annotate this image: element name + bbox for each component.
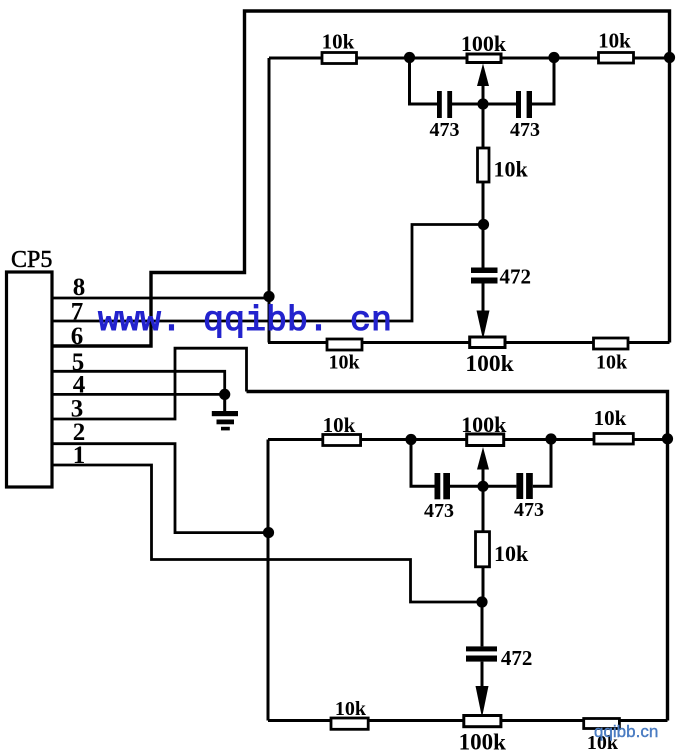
- capacitor 473 left (lower block): [435, 473, 441, 499]
- svg-text:100k: 100k: [465, 351, 514, 377]
- svg-text:7: 7: [71, 299, 84, 326]
- wire junction2 to cap472: [482, 225, 485, 268]
- node dot main rail right (lower): [545, 433, 556, 444]
- potentiometer 100k upper (lower block): [467, 434, 504, 446]
- pin 2 wire net: [52, 444, 269, 533]
- wire 10k to junction2: [482, 182, 485, 225]
- resistor 10k left (lower block): [323, 435, 361, 446]
- pin 1 wire net: [52, 465, 482, 602]
- svg-text:10k: 10k: [594, 406, 627, 430]
- svg-text:1: 1: [73, 442, 86, 469]
- capacitor 473 right (upper block): [516, 91, 521, 118]
- node dot top rail left: [404, 52, 415, 63]
- pin 5 wire: [52, 371, 225, 394]
- wire net pin6: outer border of upper block: [52, 11, 670, 346]
- svg-text:10k: 10k: [598, 29, 631, 53]
- resistor 10k bottom-left (upper block): [327, 339, 362, 350]
- resistor 10k vertical (upper block): [478, 148, 490, 182]
- node junction below wiper (lower): [477, 481, 488, 492]
- node dot top rail at right border: [664, 52, 675, 63]
- resistor 10k upper-left: [322, 53, 357, 64]
- ground symbol: [223, 394, 226, 411]
- svg-text:8: 8: [73, 274, 86, 301]
- capacitor 472 (lower block): [466, 646, 497, 651]
- svg-text:473: 473: [430, 119, 460, 141]
- wire between caps through junction: [452, 103, 516, 106]
- wire top border of lower block: [247, 392, 668, 721]
- svg-text:10k: 10k: [596, 352, 628, 374]
- wire right cap branch: [532, 58, 554, 105]
- wire left cap branch (lower): [411, 440, 435, 487]
- potentiometer 100k bottom (upper block): [470, 337, 505, 348]
- svg-text:4: 4: [73, 371, 86, 398]
- wire cap472 to arrow (lower): [481, 662, 484, 687]
- node junction below wiper (upper): [477, 98, 488, 109]
- wire between caps through junction (lower): [450, 485, 516, 488]
- svg-text:473: 473: [514, 499, 544, 521]
- resistor 10k right (lower block): [594, 434, 633, 445]
- node dot ground junction: [219, 389, 230, 400]
- wiper arrow of upper potentiometer: [482, 82, 485, 104]
- node dot top rail right: [548, 52, 559, 63]
- wiper arrow of potentiometer (lower block): [482, 468, 485, 486]
- svg-text:6: 6: [71, 323, 84, 350]
- svg-text:100k: 100k: [461, 31, 507, 56]
- wire junction to 10k mid: [482, 104, 485, 148]
- wire bottom rail of lower block: [268, 719, 668, 722]
- wire right cap branch (lower): [533, 439, 551, 486]
- node dot pin8 on left vertical: [263, 291, 274, 302]
- resistor 10k vertical (lower block): [476, 532, 490, 567]
- potentiometer 100k upper: [467, 54, 501, 63]
- wire left vertical of lower block: [267, 440, 270, 721]
- capacitor 473 left (upper block): [437, 91, 442, 118]
- resistor 10k bottom-left (lower block): [331, 718, 368, 729]
- svg-text:www. qqibb. cn: www. qqibb. cn: [98, 301, 392, 341]
- node junction2 (upper): [478, 219, 489, 230]
- capacitor 472 (upper block): [471, 268, 498, 274]
- svg-text:10k: 10k: [323, 413, 356, 437]
- svg-text:10k: 10k: [494, 157, 529, 182]
- potentiometer 100k bottom (lower block): [464, 716, 501, 727]
- node dot main rail at right border (lower): [662, 433, 673, 444]
- svg-text:10k: 10k: [335, 698, 367, 720]
- wire bottom rail of upper block: [268, 341, 670, 344]
- wiper arrow of bottom potentiometer (lower block): [476, 686, 489, 718]
- connector CP5 body: [7, 272, 53, 487]
- svg-text:10k: 10k: [328, 352, 360, 374]
- svg-text:100k: 100k: [461, 412, 507, 437]
- capacitor 473 right (lower block): [516, 473, 523, 499]
- svg-text:10k: 10k: [322, 30, 355, 54]
- wire left cap branch: [410, 58, 438, 105]
- svg-text:472: 472: [501, 646, 533, 670]
- wire cap472 to arrow: [482, 284, 485, 313]
- node junction2 (lower): [476, 596, 487, 607]
- wire junction2 to cap472 (lower): [481, 602, 484, 646]
- svg-text:qqibb.cn: qqibb.cn: [594, 722, 658, 741]
- wire main rail of lower block: [268, 438, 668, 441]
- wire junction to 10k mid (lower): [482, 486, 485, 531]
- node dot pin2 on left vertical: [263, 527, 274, 538]
- resistor 10k bottom-right (upper block): [594, 338, 629, 349]
- wire top rail of upper block: [269, 57, 670, 60]
- wire net pin7: [52, 225, 484, 322]
- resistor 10k bottom-right (lower block): [584, 719, 620, 729]
- pin 4 wire: [52, 393, 225, 396]
- wiper arrow of lower potentiometer (upper block): [477, 311, 490, 340]
- pin 3 wire net to lower block border: [52, 348, 247, 419]
- svg-text:473: 473: [510, 119, 540, 141]
- wire left vertical of upper block: [268, 58, 271, 343]
- svg-text:CP5: CP5: [11, 247, 52, 273]
- svg-text:473: 473: [424, 500, 454, 522]
- resistor 10k upper-right: [599, 53, 634, 64]
- node dot main rail left (lower): [405, 434, 416, 445]
- wire 10k to junction2 (lower): [482, 567, 485, 602]
- svg-text:472: 472: [500, 265, 532, 289]
- svg-text:10k: 10k: [494, 541, 529, 566]
- pin 8 wire: [52, 297, 269, 300]
- svg-text:100k: 100k: [459, 730, 507, 751]
